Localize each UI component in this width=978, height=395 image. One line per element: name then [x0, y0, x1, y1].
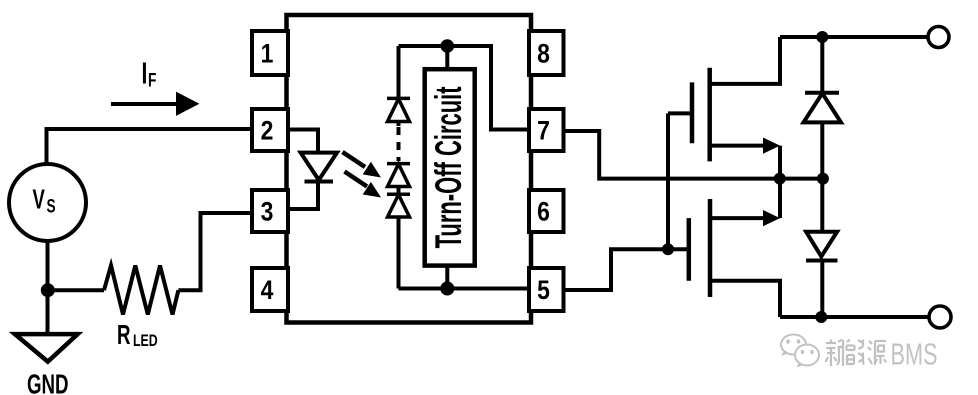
svg-text:R: R	[117, 319, 131, 349]
svg-text:6: 6	[537, 197, 550, 227]
svg-text:LED: LED	[133, 332, 158, 350]
svg-text:I: I	[142, 55, 148, 90]
svg-text:Turn-Off Circuit: Turn-Off Circuit	[428, 86, 469, 248]
svg-text:5: 5	[537, 275, 550, 305]
svg-text:1: 1	[261, 39, 274, 69]
svg-text:S: S	[47, 195, 56, 217]
svg-text:7: 7	[537, 116, 550, 146]
svg-text:8: 8	[537, 39, 550, 69]
svg-text:GND: GND	[27, 369, 69, 395]
svg-text:V: V	[33, 185, 45, 216]
svg-text:2: 2	[261, 116, 274, 146]
svg-text:4: 4	[261, 275, 274, 305]
svg-text:F: F	[148, 69, 156, 91]
svg-text:BMS: BMS	[891, 337, 938, 372]
svg-text:3: 3	[261, 197, 274, 227]
